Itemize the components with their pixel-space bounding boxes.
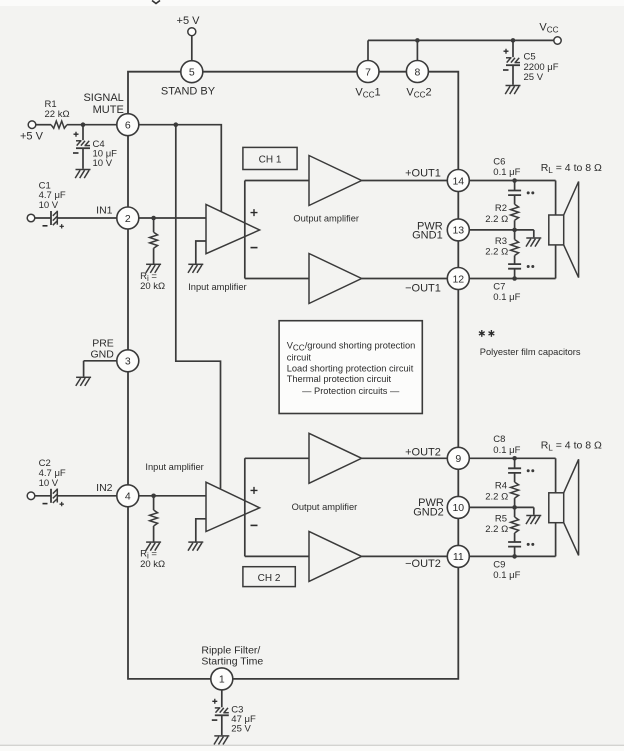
svg-text:20 kΩ: 20 kΩ (140, 281, 165, 292)
svg-text:C7: C7 (493, 281, 505, 292)
svg-text:R5: R5 (495, 513, 507, 524)
svg-text:Polyester film capacitors: Polyester film capacitors (480, 347, 581, 357)
svg-text:SIGNAL: SIGNAL (83, 92, 123, 104)
svg-text:STAND BY: STAND BY (161, 85, 216, 97)
svg-text:8: 8 (414, 66, 420, 78)
svg-text:C6: C6 (493, 156, 505, 167)
svg-text:MUTE: MUTE (93, 104, 124, 116)
svg-text:1: 1 (219, 674, 225, 686)
svg-text:25 V: 25 V (524, 72, 544, 83)
svg-text:4: 4 (125, 491, 131, 503)
svg-text:10: 10 (452, 502, 464, 514)
svg-text:10 V: 10 V (93, 158, 113, 169)
svg-text:0.1 μF: 0.1 μF (493, 167, 520, 178)
svg-text:25 V: 25 V (231, 723, 251, 734)
svg-text:Load shorting protection circu: Load shorting protection circuit (287, 363, 414, 373)
svg-text:CH 1: CH 1 (259, 155, 282, 166)
svg-text:PRE: PRE (92, 337, 114, 349)
svg-text:2: 2 (125, 213, 131, 225)
svg-text:2.2 Ω: 2.2 Ω (485, 214, 508, 225)
svg-text:0.1 μF: 0.1 μF (493, 445, 520, 456)
svg-text:Input amplifier: Input amplifier (145, 462, 203, 472)
svg-text:CH 2: CH 2 (258, 573, 281, 584)
svg-text:R2: R2 (495, 203, 507, 214)
svg-text:2.2 Ω: 2.2 Ω (485, 246, 508, 257)
svg-text:11: 11 (453, 551, 464, 563)
svg-text:−OUT2: −OUT2 (405, 558, 441, 570)
svg-text:R4: R4 (495, 481, 507, 492)
svg-text:3: 3 (125, 356, 131, 368)
svg-text:2.2 Ω: 2.2 Ω (485, 492, 508, 503)
svg-text:— Protection circuits —: — Protection circuits — (302, 386, 400, 396)
svg-text:7: 7 (365, 66, 371, 78)
svg-text:+OUT2: +OUT2 (405, 446, 441, 458)
svg-text:0.1 μF: 0.1 μF (493, 292, 520, 303)
svg-text:Thermal protection circuit: Thermal protection circuit (287, 374, 392, 384)
svg-text:Output amplifier: Output amplifier (293, 213, 359, 223)
svg-text:C9: C9 (493, 559, 505, 570)
svg-text:GND: GND (90, 349, 114, 361)
svg-text:GND2: GND2 (413, 507, 444, 519)
svg-text:GND1: GND1 (412, 230, 443, 242)
svg-text:circuit: circuit (287, 352, 312, 362)
svg-text:12: 12 (452, 273, 464, 285)
svg-text:13: 13 (452, 225, 464, 237)
svg-text:22 kΩ: 22 kΩ (45, 109, 70, 120)
svg-text:10 V: 10 V (39, 200, 59, 211)
svg-text:Output amplifier: Output amplifier (292, 502, 358, 512)
svg-text:6: 6 (125, 120, 131, 132)
svg-text:+OUT1: +OUT1 (405, 167, 441, 179)
svg-text:10 V: 10 V (39, 478, 59, 489)
svg-text:IN1: IN1 (96, 204, 113, 216)
svg-text:+5 V: +5 V (20, 130, 44, 142)
svg-text:IN2: IN2 (96, 482, 113, 494)
svg-text:Starting Time: Starting Time (201, 656, 263, 668)
svg-text:R3: R3 (495, 236, 507, 247)
svg-text:0.1 μF: 0.1 μF (493, 570, 520, 581)
svg-text:+5 V: +5 V (177, 15, 201, 27)
svg-text:14: 14 (452, 175, 464, 187)
svg-text:9: 9 (455, 453, 461, 465)
svg-text:C8: C8 (493, 434, 505, 445)
svg-text:5: 5 (189, 67, 195, 79)
svg-text:20 kΩ: 20 kΩ (140, 559, 165, 570)
svg-text:−OUT1: −OUT1 (405, 282, 441, 294)
svg-text:Input amplifier: Input amplifier (188, 282, 246, 292)
svg-text:2.2 Ω: 2.2 Ω (485, 524, 508, 535)
